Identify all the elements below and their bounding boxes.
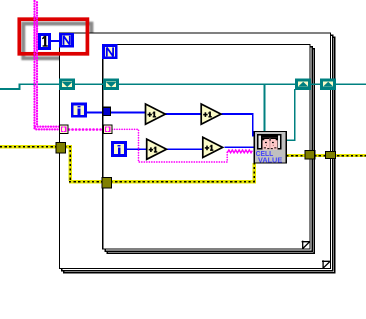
olive refnum tunnel inner-left bbox=[102, 178, 112, 189]
iteration terminal i (outer) bbox=[72, 104, 85, 116]
property node U1 CELL VALUE bbox=[254, 132, 286, 165]
olive refnum tunnel outer-right bbox=[326, 151, 336, 158]
wire: magenta 2D-array dotted wire from top edge bbox=[35, 1, 253, 162]
loop count terminal N1 (outer) bbox=[60, 34, 72, 46]
svg-text:VALUE: VALUE bbox=[258, 156, 282, 165]
olive refnum tunnel inner-right bbox=[305, 151, 315, 160]
wire: teal branch down to node top bbox=[264, 84, 266, 131]
iteration terminal i (inner) bbox=[112, 142, 125, 155]
wire: blue A1 to A2 bbox=[165, 113, 201, 115]
red annotation rectangle bbox=[19, 19, 87, 54]
wire: magenta zigzag into node bbox=[227, 150, 252, 153]
wire: teal horizontal across loops to right edge bbox=[20, 83, 366, 85]
for-loop F2 (inner) main frame bbox=[103, 45, 310, 250]
for-loop F1 (outer) main frame bbox=[60, 33, 331, 269]
incrementer B1 bbox=[147, 139, 167, 159]
incrementer B2 bbox=[203, 137, 223, 157]
wire: magenta dotted inner run down right and up to node bbox=[112, 129, 227, 162]
wire: blue i(inner) to incrementer B1 bbox=[126, 148, 147, 150]
for-loop F1 (outer) stacked page 2 bbox=[62, 35, 333, 271]
for-loop F2 (inner) stacked page 3 bbox=[107, 49, 314, 254]
for-loop F1 (outer) stacked page 3 bbox=[60, 33, 335, 273]
fold corner of outer loop F1 bbox=[322, 260, 330, 268]
node icon bbox=[257, 134, 282, 149]
shift register right tunnel (inner) bbox=[296, 80, 309, 89]
wire: yellow long run to node bottom bbox=[111, 163, 255, 182]
wire: yellow node output to right edge bbox=[287, 154, 366, 157]
wire: blue from constant 1 to N bbox=[51, 41, 255, 149]
shift register left tunnel (inner) bbox=[104, 80, 117, 89]
wire: blue B1 to B2 bbox=[166, 148, 203, 150]
wire: yellow down and to inner-left tunnel bbox=[65, 147, 104, 182]
wire: magenta 1D dotted between [] tunnels bbox=[69, 128, 104, 131]
numeric constant 1 bbox=[39, 34, 49, 48]
incrementer A1 bbox=[146, 104, 166, 124]
fold corner of inner loop F2 bbox=[302, 241, 310, 249]
for-loop F2 (inner) stacked page 2 bbox=[105, 47, 312, 252]
wire: blue B2 to node left lower bbox=[224, 146, 254, 148]
red annotation rectangle shadow bbox=[23, 24, 91, 59]
wire: yellow refnum wire from left edge bbox=[0, 147, 366, 182]
auto-index tunnel [] (inner) bbox=[103, 125, 112, 134]
wire: magenta bend into outer [] tunnel bbox=[35, 125, 60, 127]
loop count terminal N2 (inner) bbox=[104, 46, 117, 58]
wire: magenta overlay crossing red box bbox=[35, 17, 38, 58]
wire: teal shift-register wire entering from left bbox=[0, 84, 366, 140]
shift register right tunnel (outer) bbox=[321, 80, 334, 89]
blue tunnel on inner border bbox=[103, 107, 111, 115]
wire: blue i(outer) through tunnel to incrementer A1 bbox=[85, 112, 146, 114]
wire: blue A2 to node left upper bbox=[222, 114, 255, 136]
wire: teal node output up to inner right tunnel bbox=[286, 89, 295, 140]
incrementer A2 bbox=[201, 104, 221, 124]
auto-index tunnel [] (outer) bbox=[59, 125, 68, 134]
shift register left tunnel (outer) bbox=[60, 80, 73, 89]
olive refnum tunnel outer-left bbox=[56, 143, 66, 154]
